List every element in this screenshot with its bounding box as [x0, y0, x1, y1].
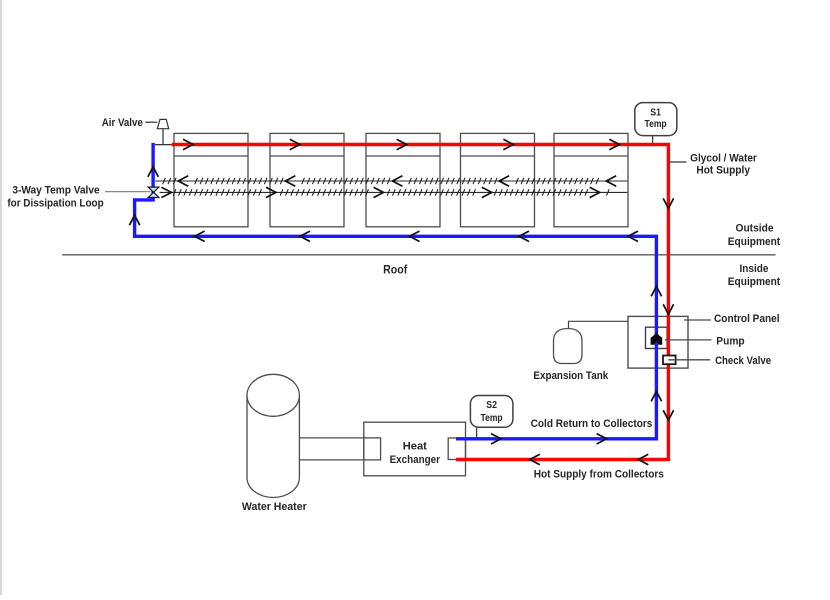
collector panel 4 — [461, 133, 535, 226]
svg-text:Hot Supply: Hot Supply — [696, 165, 750, 177]
svg-text:Heat: Heat — [403, 440, 427, 452]
svg-text:3-Way Temp Valve: 3-Way Temp Valve — [12, 185, 99, 197]
svg-text:S1: S1 — [650, 108, 661, 119]
svg-text:Control Panel: Control Panel — [714, 313, 780, 325]
svg-text:Air Valve: Air Valve — [102, 117, 143, 129]
svg-text:Outside: Outside — [736, 222, 774, 234]
svg-text:for Dissipation Loop: for Dissipation Loop — [7, 197, 104, 209]
svg-text:Glycol / Water: Glycol / Water — [690, 152, 757, 164]
S1 sensor box — [635, 103, 677, 136]
svg-text:Inside: Inside — [740, 263, 769, 275]
lower line flow arrows (right) — [161, 187, 599, 197]
svg-text:Check Valve: Check Valve — [715, 355, 771, 367]
upper line flow arrows (left) — [178, 176, 616, 186]
svg-text:Cold Return to Collectors: Cold Return to Collectors — [531, 418, 653, 430]
collector panel 5 — [554, 133, 628, 226]
pump pointer — [665, 339, 711, 341]
svg-text:Temp: Temp — [481, 413, 503, 424]
svg-text:Exchanger: Exchanger — [390, 454, 441, 466]
air valve label dash — [145, 121, 157, 123]
pump square — [646, 327, 668, 348]
red supply arrows (right) — [183, 139, 619, 149]
collector panel 2 — [270, 133, 344, 226]
left blue riser arrows (up) — [129, 167, 158, 225]
pump rotor arrow — [651, 332, 663, 344]
3-way valve pointer line — [105, 191, 151, 193]
svg-text:Water Heater: Water Heater — [242, 501, 307, 513]
control panel pointer — [684, 319, 711, 321]
collector panel 3 — [366, 133, 440, 226]
control panel box — [628, 316, 688, 368]
3-way temp valve symbol — [148, 187, 159, 197]
dissipation loop lower line — [160, 191, 628, 193]
check valve — [663, 356, 676, 365]
red downpipe arrows — [663, 198, 673, 420]
heat exchanger left port — [364, 438, 381, 460]
blue return top-run arrows (left) — [195, 231, 638, 241]
red bottom-run arrows (left) — [530, 454, 649, 464]
svg-text:Equipment: Equipment — [728, 236, 781, 248]
blue riser arrows (up) — [651, 286, 661, 401]
stub from blue riser to red supply start — [155, 144, 172, 146]
air valve symbol — [157, 119, 168, 128]
S2 sensor box — [470, 396, 513, 428]
svg-text:Equipment: Equipment — [728, 276, 781, 288]
svg-text:Roof: Roof — [383, 262, 408, 276]
svg-text:Pump: Pump — [716, 336, 745, 348]
lower line hatch ticks — [173, 189, 609, 196]
water heater cylinder — [247, 395, 299, 497]
expansion tank connector — [569, 321, 628, 329]
svg-text:S2: S2 — [486, 400, 497, 411]
expansion tank — [554, 329, 583, 364]
svg-text:Hot Supply from Collectors: Hot Supply from Collectors — [534, 468, 664, 480]
page edge — [0, 0, 2, 595]
check valve pointer — [668, 359, 710, 361]
glycol label pointer — [670, 161, 687, 163]
roof line — [62, 254, 775, 256]
S1 sensor connector — [652, 135, 654, 144]
upper line hatch ticks — [163, 178, 599, 184]
air valve stem — [162, 129, 164, 145]
S2 sensor connector — [476, 426, 478, 439]
pipe between water heater and heat exchanger — [298, 437, 364, 439]
dissipation loop upper line — [155, 180, 627, 182]
collector panel 1 — [174, 133, 248, 226]
svg-text:Expansion Tank: Expansion Tank — [533, 370, 609, 382]
blue bottom-run arrows (right) — [491, 434, 607, 444]
blue cold return pipe — [135, 143, 657, 439]
heat exchanger right port — [448, 438, 465, 460]
heat exchanger box — [364, 422, 466, 476]
red glycol hot supply pipe — [172, 145, 669, 460]
svg-text:Temp: Temp — [645, 119, 667, 130]
